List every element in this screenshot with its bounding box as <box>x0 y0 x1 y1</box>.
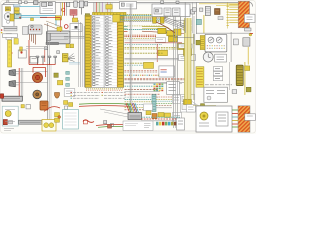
connector X1 on headlamp <box>5 7 10 11</box>
front harness connector strip (yellow bar lower) <box>8 40 12 67</box>
vertical wire x231 <box>230 32 232 62</box>
yellow cluster above note box2 <box>64 101 68 105</box>
clock <box>203 52 213 62</box>
harness band top connectors <box>184 21 191 26</box>
ignition distributor <box>29 25 43 34</box>
small component glyphs top right panel <box>200 8 203 11</box>
note box 2 (teal border) <box>63 110 79 130</box>
licence lamp notch LH <box>245 114 256 121</box>
maroon row y43 <box>125 42 183 44</box>
small glyphs x233 <box>234 39 239 45</box>
teal box right <box>196 19 201 24</box>
wire stubs right of block <box>124 26 128 28</box>
dashboard ribbon rows (upper) <box>113 15 120 22</box>
small glyphs bottom-centre <box>104 121 107 124</box>
voltmeter box top-middle <box>120 2 137 9</box>
red-brown diagonal <box>142 31 184 33</box>
roof console box top-centre <box>152 4 190 17</box>
olive row y53 <box>125 52 164 54</box>
connector X2 pair <box>14 8 19 11</box>
console box drop wires <box>155 17 157 24</box>
legend text rows under block <box>73 91 76 93</box>
left headlamp unit H1 <box>2 5 14 27</box>
fuel tank sender (olive block) <box>236 65 243 86</box>
connector pair lower <box>55 16 61 20</box>
wire bundle into fuse box top <box>93 2 95 13</box>
wires left-mid to trunk <box>26 46 48 48</box>
ribbon transition diagonals <box>163 17 185 25</box>
vertical drop from console <box>184 2 186 33</box>
wire into block left area <box>64 36 85 38</box>
right connector column of block <box>117 15 123 87</box>
inner box <box>216 112 228 126</box>
fuel sender dial <box>200 112 208 120</box>
small glyphs near x192 <box>192 8 196 12</box>
glyphs under tail lamp <box>245 28 252 31</box>
battery + terminal <box>0 94 3 99</box>
front lamp assembly outline (lower-left) <box>3 34 18 38</box>
main trunk vertical left <box>47 23 49 122</box>
connector cluster bottom <box>152 114 157 119</box>
washer pump detail box <box>42 120 56 132</box>
spark plugs <box>36 56 39 58</box>
rear rows teal/red <box>141 116 180 118</box>
vertical colored bundle into rear connector <box>126 103 130 113</box>
grey vertical bundle left of block <box>78 20 80 87</box>
relay box right of cluster <box>167 82 180 95</box>
turn signal relay K2 (pink) <box>70 10 77 16</box>
olive bend wires <box>142 27 170 30</box>
small outline box below lamp <box>6 34 12 40</box>
relay lower-left <box>30 57 38 64</box>
small box left of block top <box>85 14 89 18</box>
green+red wire pair to right <box>79 102 131 105</box>
brown curve wire <box>156 22 175 33</box>
connector cluster colored cells <box>154 83 156 85</box>
washer reservoir (hatched) <box>205 7 210 16</box>
small glyphs x232 <box>232 90 237 94</box>
oil pressure red circle <box>64 25 68 29</box>
tail lamp cluster RH (hatched) <box>238 1 249 28</box>
yellow feed lines under bus right <box>199 3 248 5</box>
left edge marks <box>1 29 3 31</box>
fuel pump red glyph <box>83 120 94 123</box>
lower red/green pair <box>96 124 131 125</box>
cyan wires from coil <box>21 15 56 17</box>
instrument cluster panel <box>205 34 227 52</box>
rear switch box <box>177 118 185 130</box>
yellow connectors mid-left <box>54 73 58 77</box>
rear harness yellow strip <box>196 67 204 88</box>
cyan connector boxes left of block <box>66 71 70 74</box>
grey diagonals bottom-centre <box>100 109 128 114</box>
red tick band y35-37 <box>125 34 157 36</box>
ignition switch on bus <box>79 1 84 8</box>
heater switch <box>243 38 250 46</box>
red wire loop to starter <box>33 66 46 68</box>
tail lamp cluster LH (hatched) <box>238 106 250 132</box>
red wire vertical left <box>18 68 20 97</box>
red vertical x56 <box>44 50 46 62</box>
washer note box bottom-left <box>2 106 18 126</box>
glyphs on bus above box <box>161 1 164 3</box>
olive row y63 + connector <box>125 62 145 64</box>
windshield washer pump M1 <box>14 5 21 7</box>
battery GB1 <box>2 96 22 101</box>
vertical trunk wires centre-right <box>129 4 131 114</box>
right panel bus line y33 <box>196 32 251 34</box>
column stalk switch glyph <box>67 54 75 62</box>
lower wire row stack <box>125 88 159 90</box>
generator below <box>33 90 42 99</box>
orange glyph left of note box2 <box>58 116 61 119</box>
harness bundle (pale yellow vertical band) <box>185 18 192 104</box>
relay box (top-left big box) <box>40 2 55 14</box>
red/brown rows y78-80 <box>125 77 187 79</box>
legend note box bottom-centre <box>123 121 153 131</box>
horn unit box <box>159 66 175 77</box>
wires to tail lamp (top) <box>229 4 238 6</box>
red rows y70-72 <box>125 69 159 71</box>
chassis earth bar <box>19 120 43 124</box>
diagram frame hint <box>1 1 256 133</box>
cluster connector strip <box>200 36 205 50</box>
boot lamp box bottom-right <box>196 106 232 132</box>
ignition switch glyph near bar <box>18 50 26 58</box>
yellow wire right <box>244 62 246 95</box>
yellow vertical wire <box>203 15 205 33</box>
teal row y86 <box>125 85 159 87</box>
lighter socket box <box>179 55 196 61</box>
oil pressure sender <box>55 93 60 99</box>
door switch boxes <box>213 67 222 71</box>
rows right of teal strip <box>156 96 172 98</box>
small boxes above rear rows <box>144 104 153 111</box>
central fuse/relay block body <box>85 15 124 87</box>
horn relay on bus <box>19 1 22 4</box>
engine / heater motor assembly <box>47 31 71 44</box>
glyphs above plugs <box>45 47 48 50</box>
small box (cigarette lighter) <box>179 44 193 48</box>
left connector column of block <box>85 15 91 87</box>
front harness connector strip (yellow bar upper) <box>10 14 14 21</box>
horns B1 B2 <box>9 69 16 76</box>
glovebox lamp box <box>215 54 227 62</box>
alternator G1 <box>23 27 29 35</box>
rear window defogger box <box>204 87 228 102</box>
multicolor tick row y75 <box>125 74 126 76</box>
stalk switch on bus <box>67 2 70 6</box>
wires to tail lamp LH <box>232 109 238 111</box>
light switch on bus <box>74 1 77 7</box>
red wire horizontal <box>40 17 61 19</box>
HT leads from distributor <box>29 34 31 40</box>
orange coil bottom <box>40 101 48 110</box>
band connector mid <box>184 49 192 56</box>
ignition coil T1 <box>15 14 22 19</box>
under-block connector strip <box>86 88 123 90</box>
olive rows y47-49 <box>125 47 181 49</box>
colored connector row bottom <box>156 122 159 126</box>
teal vertical connector strip <box>152 95 156 112</box>
connector row atop fuse box <box>93 12 127 15</box>
top bus wire <box>3 2 253 7</box>
washer jet bars <box>4 26 17 28</box>
block internal fuse/symbol rows <box>92 16 95 18</box>
red wire loop bottom <box>44 107 60 112</box>
starter M2 <box>33 73 43 83</box>
rear lamp yellow boxes bottom-left <box>55 113 60 117</box>
small olive box <box>246 87 251 92</box>
rear-right connector tick strip <box>226 3 229 5</box>
small box left-bottom of block <box>64 89 75 97</box>
grey rows y82-84 <box>125 81 185 83</box>
vertical wires near x62 <box>60 2 62 15</box>
block row separator lines <box>91 14 117 16</box>
relay boxes right <box>173 95 181 104</box>
yellow connector cluster mid <box>158 28 166 33</box>
wire rows right of block (upper stack) <box>125 14 153 16</box>
carb solenoid yellow <box>62 54 68 62</box>
block centre divider <box>103 15 105 87</box>
text row y84.5 <box>205 84 209 86</box>
horn wires to trunk <box>19 70 47 72</box>
ribbon crossing connectors <box>153 14 157 24</box>
top-right small red glyphs <box>250 32 253 34</box>
licence plate lamp notch <box>244 14 255 22</box>
connector pair mid <box>158 50 168 55</box>
steering column glyphs <box>21 105 24 108</box>
bottom bus line <box>56 130 196 132</box>
red indicator circle <box>62 8 65 11</box>
grey rows y58-60 <box>125 57 191 59</box>
rear connector block <box>128 113 142 120</box>
